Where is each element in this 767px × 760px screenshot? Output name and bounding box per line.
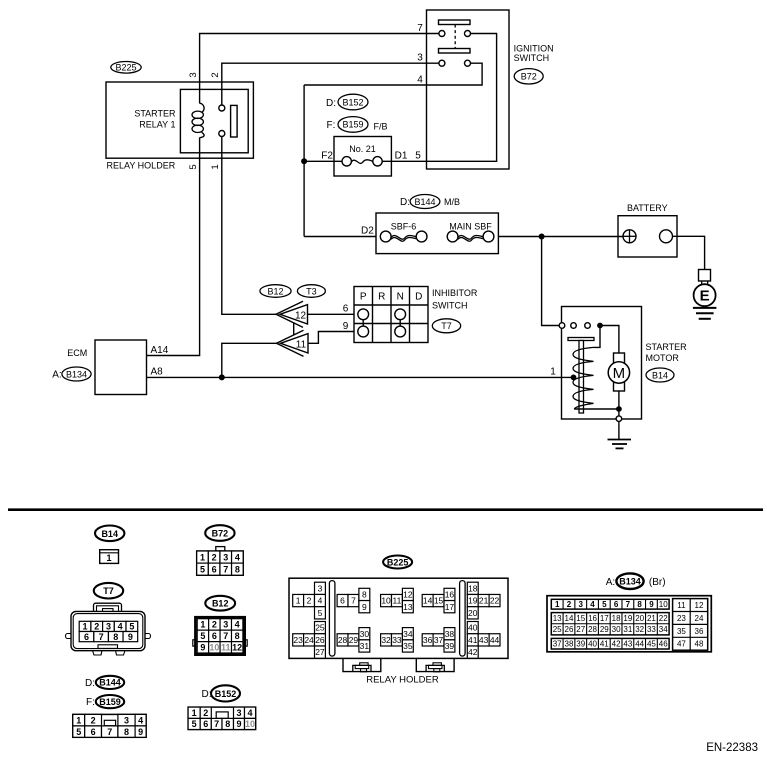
svg-text:2: 2 [210, 72, 221, 77]
svg-text:F/B: F/B [374, 122, 388, 132]
svg-text:B152: B152 [215, 689, 237, 699]
svg-text:5: 5 [602, 600, 607, 609]
B134 strip pins 13-34 [551, 613, 669, 635]
svg-text:5: 5 [192, 719, 197, 729]
svg-text:17: 17 [445, 602, 455, 612]
svg-text:SWITCH: SWITCH [432, 301, 468, 311]
connector T7 pin cells row 2 [79, 632, 94, 642]
svg-text:7: 7 [107, 727, 112, 737]
svg-text:42: 42 [468, 647, 478, 657]
svg-text:2: 2 [567, 600, 572, 609]
connector B225 body [289, 578, 508, 658]
wire: solenoid bottom to motor ground bus [574, 408, 619, 410]
connector B144/B159 pin cells row 2 [73, 726, 85, 737]
svg-text:12: 12 [403, 590, 413, 600]
svg-text:N: N [397, 291, 404, 302]
connector B144/B159 body [73, 714, 146, 737]
svg-text:22: 22 [659, 614, 668, 623]
svg-text:37: 37 [553, 640, 562, 649]
svg-text:4: 4 [248, 708, 253, 718]
svg-text:RELAY HOLDER: RELAY HOLDER [366, 675, 439, 686]
wire: link between arrow 12 and arrow 11 [293, 323, 295, 336]
ground E neck [701, 281, 703, 284]
svg-text:SWITCH: SWITCH [514, 53, 550, 63]
svg-text:1: 1 [192, 708, 197, 718]
svg-text:EN-22383: EN-22383 [706, 742, 758, 754]
svg-text:B225: B225 [387, 558, 409, 568]
svg-text:10: 10 [659, 600, 668, 609]
section divider line [8, 508, 763, 511]
B134 right block pins 11-48 [673, 599, 708, 651]
connector B134 outer box [547, 596, 711, 652]
svg-text:7: 7 [214, 719, 219, 729]
ground E stroke lines [693, 307, 717, 309]
node: motor/solenoid ground junction [616, 406, 622, 412]
svg-text:20: 20 [468, 608, 478, 618]
svg-text:10: 10 [245, 719, 255, 729]
svg-text:3: 3 [417, 53, 423, 64]
svg-text:28: 28 [338, 635, 348, 645]
wire: battery feed down to starter motor contact [542, 237, 559, 326]
connector arrow 11 [281, 334, 309, 353]
svg-text:38: 38 [565, 640, 574, 649]
svg-text:3: 3 [223, 620, 228, 630]
svg-text:36: 36 [695, 627, 704, 636]
connector T7 body outline [71, 611, 145, 650]
svg-text:15: 15 [576, 614, 585, 623]
starter contact circles [559, 323, 565, 329]
svg-text:B14: B14 [101, 529, 118, 539]
connector B225 guide bar right [460, 581, 466, 657]
svg-text:B152: B152 [342, 97, 363, 107]
svg-text:34: 34 [403, 629, 413, 639]
fuse No.21 box [334, 137, 391, 177]
svg-text:8: 8 [235, 564, 240, 574]
svg-text:31: 31 [360, 641, 370, 651]
battery negative terminal [660, 230, 673, 243]
svg-text:5: 5 [76, 727, 81, 737]
wire: arrow 11 to inhibitor pin 9 [308, 332, 354, 344]
svg-text:26: 26 [315, 635, 325, 645]
svg-text:32: 32 [635, 625, 644, 634]
svg-text:7: 7 [223, 564, 228, 574]
battery box [618, 216, 677, 257]
svg-text:MOTOR: MOTOR [646, 353, 680, 363]
B225 pins 36-39 [422, 634, 433, 646]
svg-text:4: 4 [318, 596, 323, 606]
svg-text:1: 1 [200, 620, 205, 630]
svg-text:8: 8 [235, 631, 240, 641]
svg-text:3: 3 [318, 583, 323, 593]
svg-text:B134: B134 [619, 577, 641, 587]
connector B72 body [216, 547, 225, 551]
connector B152 latch [216, 712, 228, 719]
svg-text:D1: D1 [395, 150, 408, 161]
connector B12 oval label [260, 285, 291, 298]
connector B12 side lugs [193, 640, 196, 646]
wire: ignition pin3 to relay contact pin2 [222, 63, 439, 105]
motor circle M [608, 362, 629, 383]
svg-text:IGNITION: IGNITION [514, 43, 554, 53]
svg-text:B72: B72 [521, 72, 537, 82]
svg-text:B159: B159 [342, 120, 363, 130]
svg-text:1: 1 [296, 596, 301, 606]
svg-text:8: 8 [113, 632, 118, 642]
svg-text:29: 29 [600, 625, 609, 634]
inhibitor contacts column N [395, 309, 406, 320]
svg-text:6: 6 [91, 727, 96, 737]
connector B12 pin cells [208, 619, 210, 653]
wire: ignition pin7 to relay coil pin3 [200, 34, 439, 104]
svg-text:9: 9 [138, 727, 143, 737]
svg-text:A14: A14 [151, 345, 169, 356]
ignition switch contact bar 1 [439, 20, 471, 25]
svg-text:3: 3 [106, 622, 111, 632]
svg-text:2: 2 [91, 715, 96, 725]
node: starter contact junction [597, 323, 603, 329]
svg-text:30: 30 [360, 629, 370, 639]
svg-text:40: 40 [588, 640, 597, 649]
svg-text:12: 12 [695, 601, 704, 610]
connector T3 oval label [297, 285, 325, 298]
connector B152 body [188, 707, 256, 729]
svg-text:6: 6 [340, 596, 345, 606]
connector B225 guide bar left [329, 581, 335, 657]
svg-text:27: 27 [576, 625, 585, 634]
svg-text:9: 9 [343, 321, 349, 332]
svg-text:28: 28 [588, 625, 597, 634]
svg-text:46: 46 [659, 640, 668, 649]
B134 strip pins 1-10 [551, 599, 669, 609]
svg-text:R: R [378, 291, 385, 302]
svg-text:D:: D: [202, 689, 212, 700]
svg-text:9: 9 [362, 602, 367, 612]
svg-text:9: 9 [236, 719, 241, 729]
svg-text:44: 44 [635, 640, 644, 649]
svg-text:43: 43 [479, 635, 489, 645]
svg-text:31: 31 [623, 625, 632, 634]
svg-text:4: 4 [235, 620, 240, 630]
svg-text:B134: B134 [66, 369, 87, 379]
ignition switch contact bar 2 [439, 49, 471, 54]
starter ground terminal circle [616, 416, 622, 422]
svg-text:B225: B225 [115, 63, 136, 73]
svg-text:6: 6 [212, 631, 217, 641]
svg-text:1: 1 [200, 552, 205, 562]
svg-text:41: 41 [468, 635, 478, 645]
B134 strip pins 37-46 [551, 638, 669, 649]
svg-text:D:: D: [85, 678, 95, 689]
wire: SBF box to battery positive [498, 236, 623, 238]
dashed link between bars [454, 25, 456, 49]
svg-text:M: M [613, 365, 626, 382]
svg-text:6: 6 [614, 600, 619, 609]
svg-text:D:: D: [400, 197, 410, 208]
svg-text:8: 8 [362, 590, 367, 600]
svg-text:40: 40 [468, 623, 478, 633]
svg-text:32: 32 [381, 635, 391, 645]
wire: relay coil pin5 down to ECM A14 [147, 138, 200, 356]
svg-text:33: 33 [647, 625, 656, 634]
svg-text:13: 13 [553, 614, 562, 623]
svg-text:7: 7 [99, 632, 104, 642]
wire: contact to solenoid coil [594, 326, 601, 348]
svg-text:D2: D2 [361, 226, 374, 237]
svg-text:11: 11 [221, 643, 231, 653]
svg-text:F2: F2 [321, 150, 333, 161]
battery positive terminal [623, 230, 636, 243]
svg-text:5: 5 [200, 631, 205, 641]
svg-text:No. 21: No. 21 [349, 144, 376, 154]
solenoid plunger T-bar [568, 338, 594, 341]
svg-text:3: 3 [223, 552, 228, 562]
starter relay 1 inner box [180, 89, 248, 152]
svg-text:25: 25 [315, 623, 325, 633]
ignition contact circles pin3 row [439, 60, 445, 66]
svg-text:INHIBITOR: INHIBITOR [432, 288, 478, 298]
svg-text:34: 34 [659, 625, 668, 634]
svg-text:19: 19 [623, 614, 632, 623]
fuse MAIN SBF element [447, 231, 458, 242]
svg-text:B14: B14 [652, 370, 668, 380]
B225 pins 10-13 [381, 594, 392, 606]
wire: battery negative to chassis ground E [672, 236, 704, 269]
inhibitor switch table grid [354, 287, 428, 343]
svg-text:1: 1 [76, 715, 81, 725]
svg-text:(Br): (Br) [649, 577, 666, 588]
relay coil [200, 103, 204, 113]
wire: ECM A8 to starter motor pin 1 [147, 376, 574, 378]
svg-text:12: 12 [295, 311, 307, 322]
svg-text:18: 18 [612, 614, 621, 623]
wire: fuse No.21 D1 output to ignition pin5 riser [382, 34, 496, 162]
svg-text:B144: B144 [414, 197, 435, 207]
connector B225 mounting tab left [343, 658, 381, 671]
svg-text:F:: F: [86, 697, 95, 708]
svg-text:22: 22 [490, 596, 500, 606]
SBF fuse box [376, 213, 498, 254]
svg-text:B12: B12 [267, 286, 283, 296]
B225 pins 18-22 [467, 582, 478, 594]
svg-text:14: 14 [423, 596, 433, 606]
B225 pins 14-17 [422, 594, 433, 606]
svg-text:A:: A: [52, 370, 61, 381]
svg-text:24: 24 [695, 614, 704, 623]
connector B12 body [195, 617, 244, 655]
svg-text:39: 39 [445, 641, 455, 651]
connector B14 oval label [646, 368, 674, 382]
svg-text:B12: B12 [212, 599, 229, 609]
connector T7 top tab [94, 603, 122, 614]
svg-text:48: 48 [695, 640, 704, 649]
svg-text:26: 26 [565, 625, 574, 634]
fuse SBF-6 element [380, 231, 391, 242]
svg-text:4: 4 [118, 622, 123, 632]
svg-text:B159: B159 [99, 697, 121, 707]
svg-text:STARTER: STARTER [134, 109, 176, 119]
svg-text:D: D [415, 291, 422, 302]
connector B72 oval label [514, 69, 543, 84]
svg-text:10: 10 [381, 596, 391, 606]
wire: motor to ground node [618, 391, 620, 416]
svg-text:13: 13 [403, 602, 413, 612]
svg-text:7: 7 [223, 631, 228, 641]
svg-text:27: 27 [315, 647, 325, 657]
svg-text:4: 4 [417, 75, 423, 86]
svg-text:B72: B72 [212, 529, 229, 539]
svg-text:M/B: M/B [444, 197, 460, 207]
wire: starter to chassis ground [618, 422, 620, 440]
ground symbol under starter [608, 439, 632, 441]
wire: relay contact pin1 down to connector arrow 12 [222, 137, 277, 315]
svg-text:43: 43 [623, 640, 632, 649]
svg-text:8: 8 [124, 727, 129, 737]
svg-text:12: 12 [232, 643, 242, 653]
connector B152 pin cells row 1 [188, 707, 200, 718]
svg-text:RELAY 1: RELAY 1 [139, 120, 175, 130]
connector B144/B159 pin cells row 1 [73, 714, 85, 726]
svg-text:23: 23 [293, 635, 303, 645]
svg-text:36: 36 [423, 635, 433, 645]
svg-text:2: 2 [307, 596, 312, 606]
svg-text:STARTER: STARTER [646, 342, 688, 352]
svg-text:MAIN SBF: MAIN SBF [449, 222, 492, 232]
wire: D2 to SBF fuse box [304, 236, 376, 238]
svg-text:3: 3 [124, 715, 129, 725]
B225 pins 6-9 [337, 594, 348, 606]
svg-text:5: 5 [415, 151, 421, 162]
connector B12 oval label (bottom) [205, 596, 235, 611]
svg-text:6: 6 [212, 564, 217, 574]
svg-text:T3: T3 [306, 286, 317, 296]
svg-text:18: 18 [468, 583, 478, 593]
svg-text:3: 3 [236, 708, 241, 718]
svg-text:6: 6 [84, 632, 89, 642]
node: pin 1 to coil [571, 375, 577, 381]
svg-text:2: 2 [212, 552, 217, 562]
connector B72 oval label (bottom) [205, 525, 234, 541]
svg-text:7: 7 [626, 600, 631, 609]
solenoid coil [573, 347, 594, 409]
node: A8 / arrow-11 junction [219, 374, 225, 380]
svg-text:16: 16 [445, 590, 455, 600]
svg-text:11: 11 [677, 601, 686, 610]
connector T7 oval label [432, 319, 460, 333]
starter motor box [562, 307, 642, 420]
ground E connector square [699, 270, 711, 282]
connector T7 pin cells row 1 [79, 621, 91, 631]
svg-text:6: 6 [343, 304, 349, 315]
svg-text:3: 3 [188, 72, 199, 77]
wire: fuse F2 input junction to fuse No.21 [304, 160, 342, 162]
connector T7 bottom bar [98, 645, 118, 649]
svg-text:8: 8 [637, 600, 642, 609]
svg-text:4: 4 [235, 552, 240, 562]
svg-text:T7: T7 [103, 586, 114, 596]
ignition switch box B72 [427, 10, 510, 169]
connector B225 oval label [111, 62, 141, 74]
svg-text:11: 11 [296, 340, 307, 351]
svg-text:35: 35 [403, 641, 413, 651]
svg-text:1: 1 [550, 366, 556, 377]
svg-text:7: 7 [417, 23, 423, 34]
svg-text:39: 39 [576, 640, 585, 649]
ignition contact circles pin7 row [439, 31, 445, 37]
svg-text:6: 6 [203, 719, 208, 729]
svg-text:2: 2 [203, 708, 208, 718]
svg-text:35: 35 [677, 627, 686, 636]
svg-text:D:: D: [326, 98, 336, 109]
svg-text:9: 9 [128, 632, 133, 642]
svg-text:5: 5 [129, 622, 134, 632]
wire: vertical F/B feed (pin4 to D2) [303, 85, 305, 237]
B225 pins 32-35 [381, 634, 392, 646]
svg-text:38: 38 [445, 629, 455, 639]
svg-text:BATTERY: BATTERY [627, 203, 668, 213]
B225 pins 28-31 [337, 634, 348, 646]
wire: arrow 12 to inhibitor pin 6 [308, 313, 355, 315]
svg-text:ECM: ECM [67, 348, 87, 358]
wire: connector arrow 11 to A8 net [222, 343, 277, 377]
connector T7 bottom feet [93, 651, 103, 656]
svg-text:1: 1 [106, 553, 111, 563]
svg-text:T7: T7 [441, 321, 452, 331]
svg-text:24: 24 [304, 635, 314, 645]
connector arrow 12 [280, 305, 308, 324]
inhibitor contacts column P [358, 309, 369, 320]
svg-text:10: 10 [209, 643, 219, 653]
relay contact circles [219, 105, 225, 111]
ground E circle [694, 284, 716, 306]
svg-text:4: 4 [590, 600, 595, 609]
node: battery feed junction to starter [539, 234, 545, 240]
svg-text:1: 1 [210, 164, 221, 169]
svg-text:20: 20 [635, 614, 644, 623]
svg-text:5: 5 [318, 608, 323, 618]
svg-text:4: 4 [138, 715, 143, 725]
connector B72 pin cells [197, 551, 209, 563]
svg-text:B144: B144 [99, 678, 121, 688]
B225 pins 1-5 [293, 594, 304, 606]
connector B144/B159 latch [104, 720, 115, 725]
wire: ignition pin4 branch to F/B vertical [304, 63, 482, 85]
svg-text:A8: A8 [151, 366, 164, 377]
connector B14 oval label (bottom) [95, 526, 124, 542]
relay holder outer box [106, 82, 253, 158]
svg-text:16: 16 [588, 614, 597, 623]
svg-text:21: 21 [479, 596, 489, 606]
svg-text:42: 42 [612, 640, 621, 649]
svg-text:21: 21 [647, 614, 656, 623]
svg-text:5: 5 [200, 564, 205, 574]
svg-text:3: 3 [579, 600, 584, 609]
svg-text:SBF-6: SBF-6 [391, 222, 417, 232]
svg-text:23: 23 [677, 614, 686, 623]
connector T7 oval label (bottom) [94, 583, 123, 599]
node: F2 junction [301, 158, 307, 164]
svg-text:41: 41 [600, 640, 609, 649]
svg-text:9: 9 [200, 643, 205, 653]
relay contact bar [231, 105, 238, 137]
svg-text:7: 7 [351, 596, 356, 606]
wire: contact to motor [600, 326, 619, 354]
connector T7 side lugs [66, 634, 72, 639]
svg-text:15: 15 [434, 596, 444, 606]
svg-text:44: 44 [490, 635, 500, 645]
ECM box [95, 340, 147, 395]
svg-text:5: 5 [188, 164, 199, 169]
svg-text:F:: F: [327, 120, 336, 131]
